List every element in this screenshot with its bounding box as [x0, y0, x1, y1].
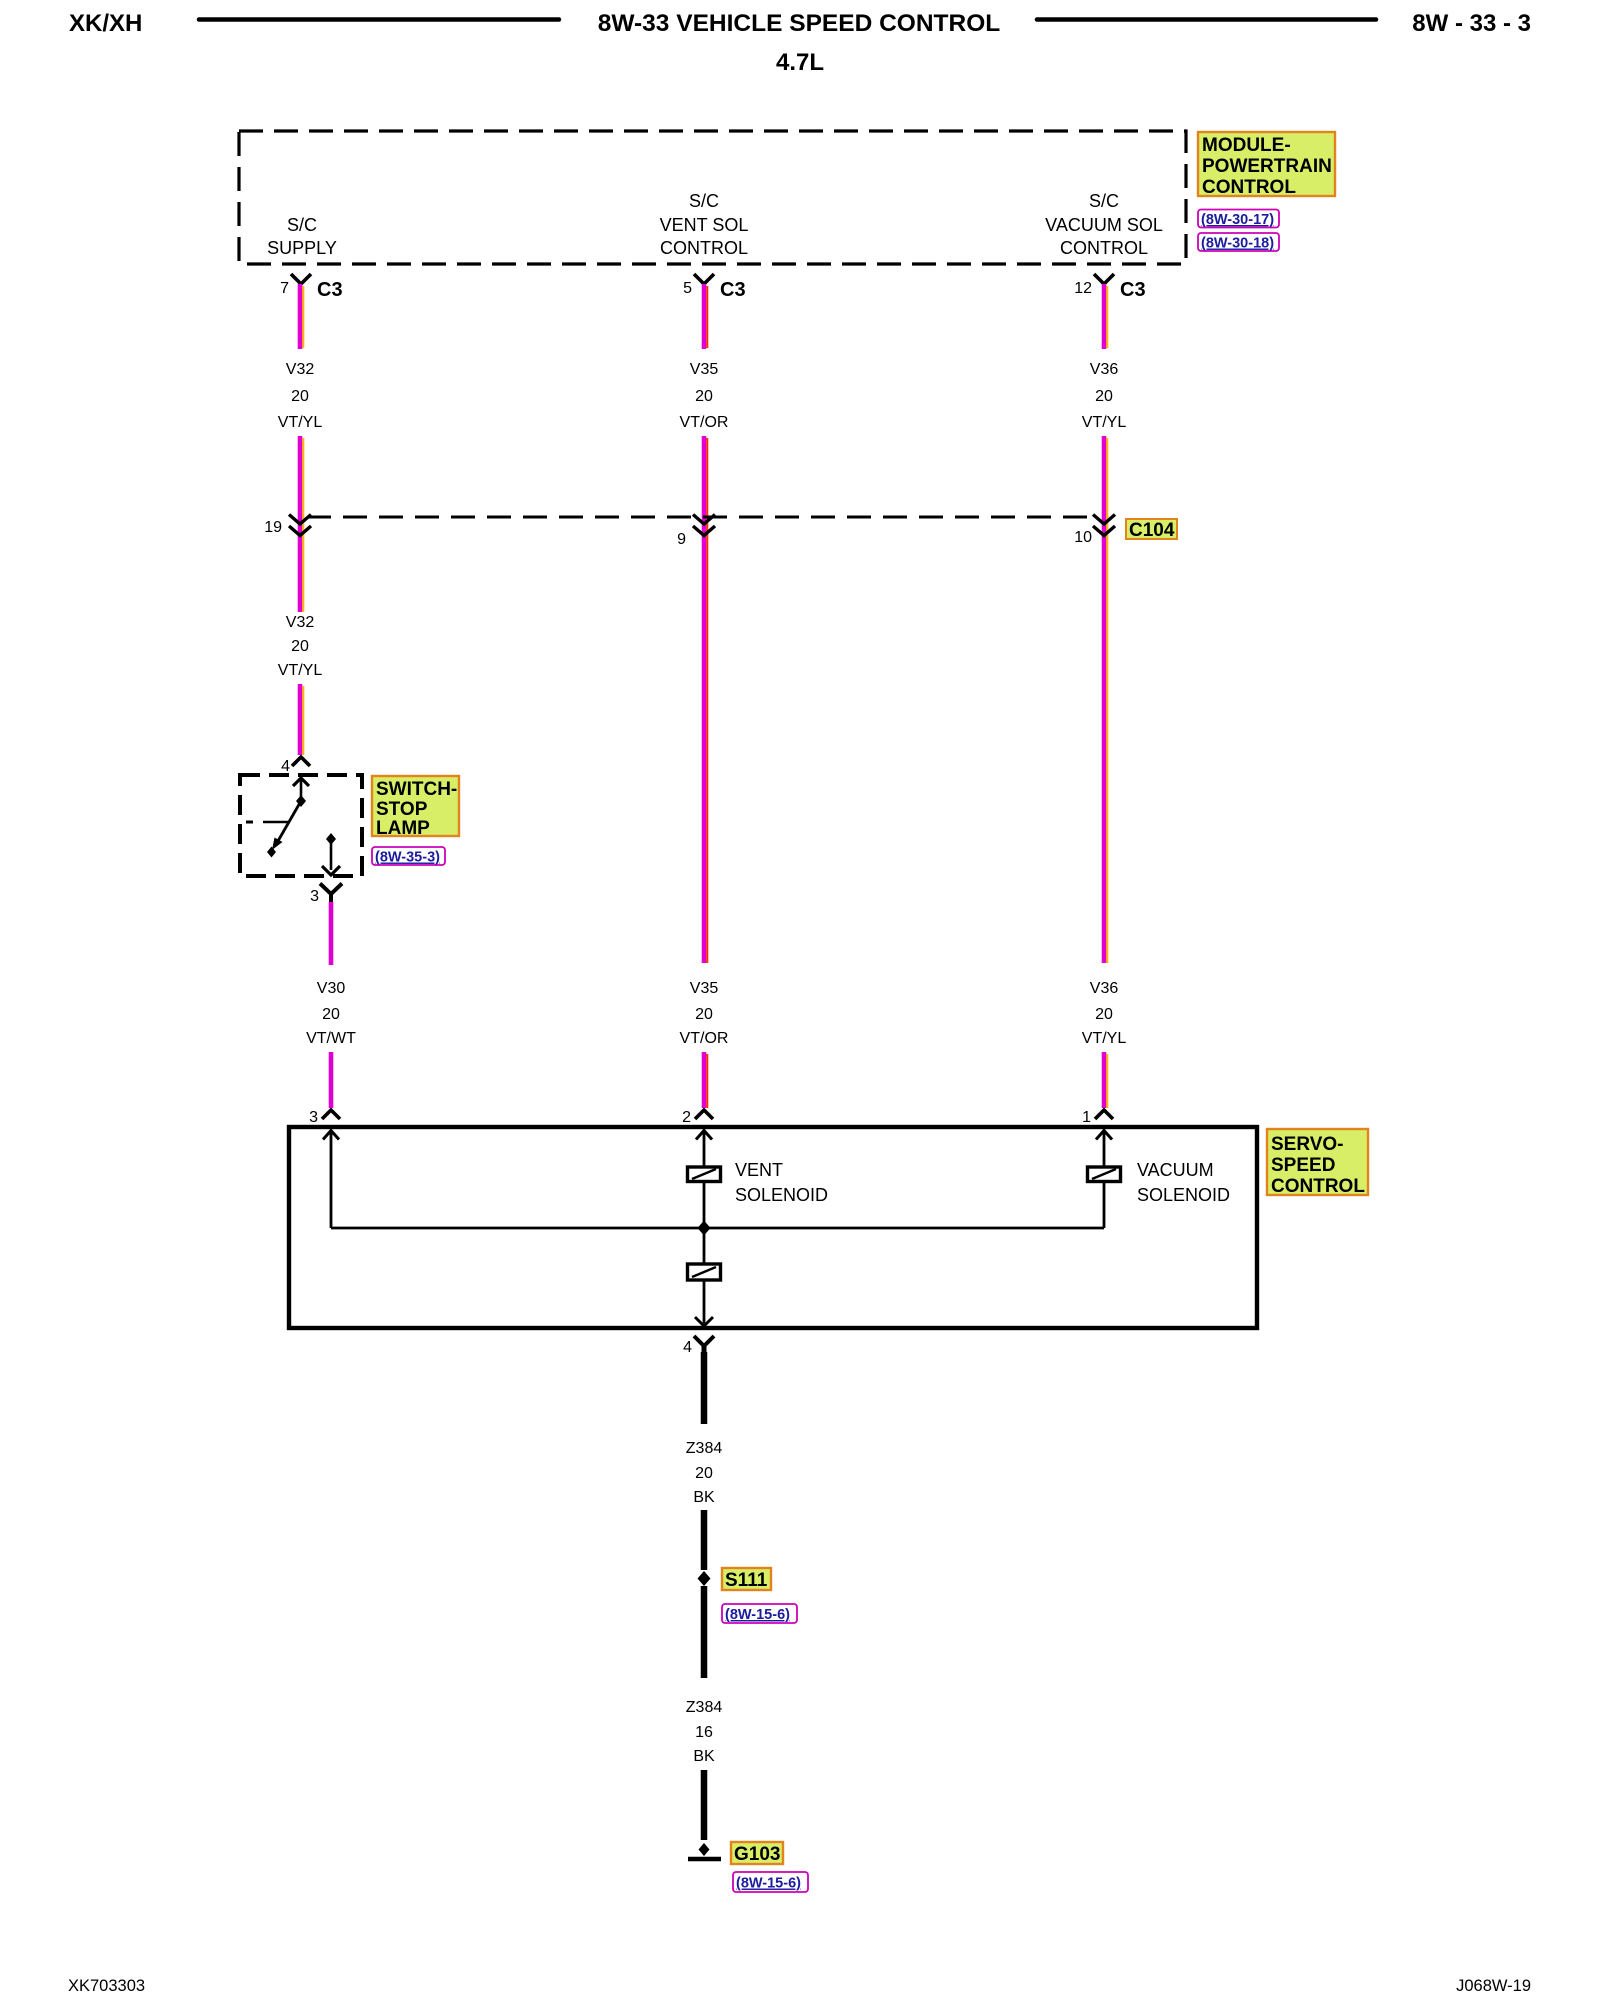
C104 ROW	[264, 515, 1177, 549]
servo internal pin 2 arrow and wire	[696, 1131, 712, 1140]
WIRES TOP	[278, 284, 1127, 963]
ground symbol G103	[688, 1843, 721, 1859]
svg-text:V35: V35	[690, 361, 719, 378]
splice label S111	[722, 1568, 771, 1591]
wire V35 20 VT/OR segment from pin 5	[680, 284, 729, 963]
connector pin 4 of stop lamp switch	[281, 757, 310, 775]
svg-text:(8W-30-17): (8W-30-17)	[1201, 212, 1274, 228]
svg-text:POWERTRAIN: POWERTRAIN	[1202, 156, 1332, 177]
svg-text:7: 7	[280, 280, 289, 297]
svg-text:CONTROL: CONTROL	[1271, 1176, 1365, 1197]
switch pivot node	[296, 795, 306, 807]
servo internal bus wire	[331, 1227, 1104, 1230]
vent solenoid coil symbol	[688, 1167, 721, 1182]
svg-text:SWITCH-: SWITCH-	[376, 779, 457, 800]
svg-text:VT/OR: VT/OR	[680, 1030, 729, 1047]
svg-text:SOLENOID: SOLENOID	[1137, 1185, 1230, 1205]
svg-text:VT/YL: VT/YL	[278, 414, 323, 431]
svg-text:8W-33 VEHICLE SPEED CONTROL: 8W-33 VEHICLE SPEED CONTROL	[598, 10, 1000, 37]
svg-text:8W - 33 - 3: 8W - 33 - 3	[1412, 10, 1531, 37]
connector pin 7 C3	[280, 274, 342, 301]
svg-text:5: 5	[683, 280, 692, 297]
svg-text:CONTROL: CONTROL	[660, 238, 748, 258]
SERVO BOX	[289, 1109, 1368, 1356]
servo common solenoid coil symbol	[688, 1264, 721, 1280]
svg-text:G103: G103	[734, 1844, 780, 1865]
svg-text:BK: BK	[693, 1748, 715, 1765]
svg-text:(8W-15-6): (8W-15-6)	[725, 1607, 790, 1623]
vacuum solenoid coil symbol	[1088, 1167, 1121, 1182]
servo internal pin 1 arrow and wire	[1096, 1131, 1112, 1140]
svg-text:C3: C3	[720, 279, 746, 301]
svg-text:20: 20	[291, 388, 309, 405]
svg-text:C3: C3	[1120, 279, 1146, 301]
svg-text:C3: C3	[317, 279, 343, 301]
svg-text:V30: V30	[317, 980, 346, 997]
wire Z384 16 BK from splice to ground	[686, 1586, 723, 1840]
MIDWIRES	[306, 902, 1126, 1108]
svg-text:V36: V36	[1090, 361, 1119, 378]
svg-text:MODULE-: MODULE-	[1202, 135, 1291, 156]
svg-text:19: 19	[264, 519, 282, 536]
servo - speed control box	[289, 1127, 1257, 1328]
FOOTER	[68, 1977, 1531, 1995]
GROUND PATH	[686, 1352, 808, 1892]
svg-text:S111: S111	[725, 1570, 768, 1591]
svg-text:STOP: STOP	[376, 799, 428, 820]
connector C104 dashed line	[307, 516, 1098, 519]
component label MODULE-POWERTRAIN CONTROL	[1198, 132, 1335, 198]
svg-text:2: 2	[682, 1109, 691, 1126]
reference link 8W-15-6 (S111)	[722, 1604, 797, 1623]
header rule right	[1037, 17, 1376, 22]
svg-text:20: 20	[695, 388, 713, 405]
svg-text:V32: V32	[286, 614, 315, 631]
wire V32 20 VT/YL segment below C104	[278, 614, 323, 755]
svg-text:16: 16	[695, 1724, 713, 1741]
svg-text:CONTROL: CONTROL	[1060, 238, 1148, 258]
svg-text:1: 1	[1082, 1109, 1091, 1126]
HEADER	[69, 10, 1531, 76]
header rule left	[199, 17, 559, 22]
connector pin 9 C104	[677, 515, 715, 549]
svg-text:SOLENOID: SOLENOID	[735, 1185, 828, 1205]
ground label G103	[731, 1842, 783, 1865]
servo return wire to pin 4 with down arrow	[703, 1280, 706, 1325]
svg-text:4: 4	[281, 758, 290, 775]
svg-text:SUPPLY: SUPPLY	[267, 238, 337, 258]
svg-text:9: 9	[677, 531, 686, 548]
connector pin 19 C104	[264, 515, 311, 537]
reference link 8W-15-6 (G103)	[733, 1872, 808, 1892]
connector pin 2 of servo	[682, 1109, 713, 1126]
switch output contact (pin 3 side)	[326, 833, 336, 845]
svg-text:VT/OR: VT/OR	[680, 414, 729, 431]
svg-text:VT/YL: VT/YL	[278, 662, 323, 679]
svg-text:BK: BK	[693, 1489, 715, 1506]
svg-text:C104: C104	[1129, 520, 1175, 541]
svg-text:VENT SOL: VENT SOL	[660, 215, 749, 235]
servo internal pin 3 arrow and wire	[323, 1131, 339, 1140]
svg-text:20: 20	[1095, 1006, 1113, 1023]
connector pin 4 of servo	[683, 1336, 714, 1356]
module - powertrain control dashed box	[239, 131, 1186, 264]
svg-text:(8W-15-6): (8W-15-6)	[736, 1876, 801, 1892]
connector pin 1 of servo	[1082, 1109, 1113, 1126]
svg-text:XK703303: XK703303	[68, 1977, 145, 1995]
wire V35 20 VT/OR from C104 to servo	[680, 980, 729, 1108]
switch contact arrow up (pin 4 side)	[293, 778, 309, 786]
switch - stop lamp dashed box	[240, 775, 362, 876]
svg-text:10: 10	[1074, 529, 1092, 546]
connector pin 3 of servo	[309, 1109, 340, 1126]
servo internal junction node	[698, 1221, 711, 1236]
svg-text:S/C: S/C	[689, 191, 719, 211]
svg-text:3: 3	[310, 888, 319, 905]
svg-text:20: 20	[322, 1006, 340, 1023]
reference link 8W-30-17	[1198, 210, 1279, 229]
component label SWITCH-STOP LAMP	[372, 776, 459, 839]
wire V36 20 VT/YL from C104 to servo	[1082, 980, 1127, 1108]
reference link 8W-35-3	[372, 847, 445, 866]
reference link 8W-30-18	[1198, 233, 1279, 252]
svg-text:CONTROL: CONTROL	[1202, 177, 1296, 198]
svg-text:12: 12	[1074, 280, 1092, 297]
svg-text:SERVO-: SERVO-	[1271, 1134, 1344, 1155]
wire V32 20 VT/YL segment from pin 7	[278, 284, 323, 612]
svg-text:20: 20	[695, 1465, 713, 1482]
switch blade with arrowhead	[278, 801, 301, 841]
wire V30 20 VT/WT from switch to servo	[306, 902, 356, 1108]
svg-text:S/C: S/C	[287, 215, 317, 235]
servo common return wire	[703, 1228, 706, 1264]
component label SERVO-SPEED CONTROL	[1267, 1129, 1368, 1197]
svg-text:VT/WT: VT/WT	[306, 1030, 356, 1047]
connector label C104	[1126, 519, 1177, 541]
svg-text:VT/YL: VT/YL	[1082, 1030, 1127, 1047]
svg-text:VACUUM SOL: VACUUM SOL	[1045, 215, 1163, 235]
svg-text:(8W-30-18): (8W-30-18)	[1201, 236, 1274, 252]
svg-text:V35: V35	[690, 980, 719, 997]
svg-text:XK/XH: XK/XH	[69, 10, 142, 37]
svg-text:3: 3	[309, 1109, 318, 1126]
wire Z384 20 BK from servo pin 4	[686, 1352, 723, 1570]
svg-text:20: 20	[1095, 388, 1113, 405]
svg-text:LAMP: LAMP	[376, 818, 430, 839]
svg-text:4.7L: 4.7L	[776, 49, 824, 76]
svg-text:Z384: Z384	[686, 1699, 723, 1716]
switch fixed contact line	[246, 821, 253, 824]
svg-text:20: 20	[291, 638, 309, 655]
connector pin 10 C104	[1074, 515, 1115, 547]
svg-text:Z384: Z384	[686, 1440, 723, 1457]
svg-text:S/C: S/C	[1089, 191, 1119, 211]
PCM BOX	[239, 131, 1335, 301]
svg-text:J068W-19: J068W-19	[1456, 1977, 1531, 1995]
svg-text:(8W-35-3): (8W-35-3)	[375, 850, 440, 866]
SWITCH	[240, 614, 459, 905]
svg-text:20: 20	[695, 1006, 713, 1023]
connector pin 12 C3	[1074, 274, 1145, 301]
wire V36 20 VT/YL segment from pin 12	[1082, 284, 1127, 963]
splice S111 node	[698, 1571, 711, 1586]
connector pin 5 C3	[683, 274, 745, 301]
svg-text:V32: V32	[286, 361, 315, 378]
svg-text:VACUUM: VACUUM	[1137, 1160, 1214, 1180]
svg-text:4: 4	[683, 1339, 692, 1356]
svg-text:VT/YL: VT/YL	[1082, 414, 1127, 431]
svg-text:VENT: VENT	[735, 1160, 783, 1180]
svg-text:SPEED: SPEED	[1271, 1155, 1335, 1176]
connector pin 3 of stop lamp switch	[310, 884, 342, 906]
svg-text:V36: V36	[1090, 980, 1119, 997]
